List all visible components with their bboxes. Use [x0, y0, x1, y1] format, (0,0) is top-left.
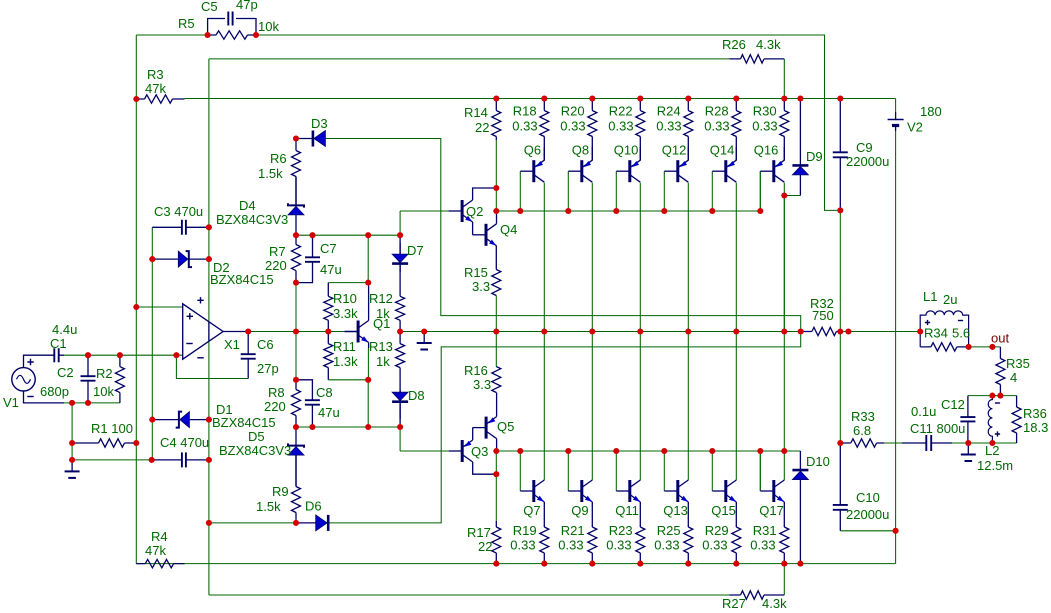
junction D2 left [149, 256, 155, 262]
svg-text:0.33: 0.33 [656, 119, 681, 134]
junction A C7 [309, 232, 315, 238]
svg-text:R34: R34 [924, 326, 948, 341]
svg-text:R21: R21 [561, 523, 585, 538]
wire Q16 emitter lead [783, 147, 785, 160]
svg-text:3.3: 3.3 [472, 279, 490, 294]
svg-text:Q16: Q16 [754, 143, 779, 158]
svg-text:0.33: 0.33 [512, 119, 537, 134]
junction midline x688 [685, 328, 691, 334]
svg-text:C5: C5 [201, 0, 218, 14]
junction top bus x520 [517, 208, 523, 214]
junction bottom bus2 x496 [493, 561, 499, 567]
svg-text:1.3k: 1.3k [333, 354, 358, 369]
capacitor C2 [81, 355, 96, 403]
junction L2 top [989, 393, 995, 399]
svg-text:2u: 2u [943, 292, 957, 307]
svg-text:R4: R4 [151, 529, 168, 544]
wire Q4 collector [496, 211, 498, 224]
transistor Q7 [520, 480, 544, 502]
wire base drop top Q12 [663, 171, 665, 211]
svg-text:V2: V2 [907, 120, 923, 135]
diode D6 [296, 515, 329, 531]
wire R15 to midline [495, 296, 497, 332]
junction midline x640 [637, 328, 643, 334]
svg-text:Q4: Q4 [500, 222, 517, 237]
svg-text:R13: R13 [369, 339, 393, 354]
svg-text:C9: C9 [856, 140, 873, 155]
svg-text:10k: 10k [93, 384, 114, 399]
junction L2 bottom [989, 440, 995, 446]
wire Q1 emitter link [367, 380, 369, 427]
svg-text:220: 220 [264, 399, 286, 414]
svg-text:R30: R30 [753, 104, 777, 119]
junction midline loop [798, 328, 804, 334]
junction midline gnd [421, 328, 427, 334]
svg-text:0.33: 0.33 [704, 119, 729, 134]
junction zobel gnd [965, 440, 971, 446]
junction bottom bus x712 [709, 448, 715, 454]
svg-text:Q14: Q14 [710, 143, 735, 158]
svg-text:D10: D10 [806, 454, 830, 469]
junction top bus x712 [709, 208, 715, 214]
svg-text:Q8: Q8 [572, 143, 589, 158]
wire second rail [209, 58, 730, 60]
junction bus x800 [797, 95, 803, 101]
svg-text:V1: V1 [3, 395, 19, 410]
resistor R28 [732, 99, 741, 161]
op-amp X1 [183, 297, 249, 359]
wire base rise bottom Q9 [567, 451, 569, 491]
wire supply column [208, 59, 210, 595]
junction R9 bottom [293, 520, 299, 526]
svg-text:R22: R22 [609, 104, 633, 119]
capacitor C3 [152, 220, 209, 235]
svg-text:Q3: Q3 [471, 444, 488, 459]
junction midline L1 [917, 328, 923, 334]
transistor Q14 [712, 160, 736, 182]
svg-text:R25: R25 [657, 523, 681, 538]
svg-text:47k: 47k [145, 81, 166, 96]
wire midline left [248, 331, 344, 333]
resistor R12 [396, 235, 405, 331]
resistor R15 [492, 246, 501, 296]
junction B Q1 collector [365, 280, 371, 286]
wire output column 1 [543, 183, 545, 481]
svg-text:R11: R11 [333, 339, 356, 354]
transistor Q17 [760, 480, 784, 502]
svg-text:BZX84C15: BZX84C15 [212, 415, 276, 430]
resistor R9 [292, 455, 301, 523]
svg-text:R27: R27 [722, 596, 746, 611]
svg-text:Q13: Q13 [663, 503, 688, 518]
svg-text:22: 22 [475, 120, 489, 135]
junction C4 left [149, 457, 155, 463]
junction R33 left [837, 440, 843, 446]
junction D1 right [206, 417, 212, 423]
wire Q1 collector link [367, 235, 369, 282]
svg-text:C1: C1 [50, 336, 67, 351]
svg-text:R26: R26 [722, 37, 746, 52]
junction A D7 [397, 232, 403, 238]
svg-text:47p: 47p [236, 0, 258, 12]
wire B line [328, 282, 368, 284]
junction bus x688 [685, 95, 691, 101]
wire ground column [71, 403, 73, 460]
wire Q17 base drop [759, 451, 761, 491]
wire top rail [136, 34, 207, 36]
wire base rise bottom Q11 [615, 451, 617, 491]
wire Q3 base link [399, 427, 401, 451]
svg-text:680p: 680p [40, 384, 69, 399]
junction bottom bus2 x688 [685, 561, 691, 567]
svg-text:Q5: Q5 [497, 419, 514, 434]
resistor R16 [492, 367, 501, 393]
wire noninverting input [136, 306, 182, 308]
node R5 right [253, 32, 259, 38]
svg-text:R10: R10 [333, 291, 357, 306]
wire R7R8 column mid [295, 283, 297, 380]
wire V2 column [895, 99, 897, 113]
wire C4 line left [72, 459, 152, 461]
transistor Q5 [473, 417, 497, 439]
junction C Q1 emitter [365, 377, 371, 383]
transistor Q8 [568, 160, 592, 182]
wire upper base bus [496, 171, 760, 211]
diode D8 [392, 390, 408, 419]
resistor R5 [208, 31, 256, 39]
resistor R35 [996, 347, 1005, 396]
junction R14 Q2 [493, 185, 499, 191]
svg-text:R35: R35 [1006, 356, 1030, 371]
svg-text:Q2: Q2 [466, 204, 483, 219]
wire midline main [400, 331, 806, 333]
junction bottom bus x760 [757, 448, 763, 454]
svg-text:BZX84C15: BZX84C15 [210, 272, 274, 287]
svg-text:C4 470u: C4 470u [160, 435, 209, 450]
zener D5 [288, 427, 304, 487]
diode D9 [792, 99, 808, 196]
junction bus x840 [837, 95, 843, 101]
svg-text:0.1u: 0.1u [911, 404, 936, 419]
wire D6 rail left [209, 522, 296, 524]
junction bottom bus2 x736 [733, 561, 739, 567]
svg-text:10k: 10k [258, 19, 279, 34]
junction bus x640 [637, 95, 643, 101]
resistor R30 [780, 99, 789, 161]
svg-text:D5: D5 [248, 429, 265, 444]
svg-text:R2: R2 [96, 366, 113, 381]
wire aux column [151, 227, 153, 460]
wire base rise bottom Q17 [759, 451, 761, 491]
junction midline x544 [541, 328, 547, 334]
svg-text:3.3: 3.3 [473, 377, 491, 392]
wire V2 down column [895, 131, 897, 564]
node R3 left [133, 96, 139, 102]
transistor Q15 [712, 480, 736, 502]
resistor R2 [115, 355, 124, 403]
wire Q3 collector to R17 [495, 474, 497, 521]
resistor R32 [801, 327, 841, 335]
junction gnd col [69, 457, 75, 463]
svg-text:22000u: 22000u [846, 507, 889, 522]
wire bottom rail R27 [209, 594, 730, 596]
wire Q1 base lead [345, 331, 359, 333]
junction bus x592 [589, 95, 595, 101]
resistor R7 [292, 235, 301, 282]
wire Q5 emitter up [496, 393, 498, 417]
junction R1 right [133, 440, 139, 446]
zener D2 [152, 251, 209, 267]
svg-text:R23: R23 [609, 523, 633, 538]
wire D6 rail to output loop [329, 332, 801, 523]
resistor R20 [588, 99, 597, 161]
capacitor C4 [152, 452, 209, 467]
wire R14 link [495, 188, 497, 211]
svg-text:C6: C6 [257, 337, 274, 352]
capacitor C7 [296, 235, 320, 282]
svg-text:D8: D8 [408, 388, 425, 403]
wire output column 6 [783, 183, 785, 481]
resistor R6 [292, 139, 301, 206]
svg-text:0.33: 0.33 [752, 119, 777, 134]
resistor R8 [292, 380, 301, 427]
svg-text:C12: C12 [941, 397, 965, 412]
transistor Q16 [760, 160, 784, 182]
junction A Q1c [365, 232, 371, 238]
ground at zobel [961, 443, 976, 461]
svg-text:Q17: Q17 [759, 503, 784, 518]
svg-text:5.6: 5.6 [952, 326, 970, 341]
wire Q10 emitter lead [639, 147, 641, 160]
junction bus x496 [493, 95, 499, 101]
svg-text:C10: C10 [856, 490, 880, 505]
transistor Q11 [616, 480, 640, 502]
junction C4 right [206, 457, 212, 463]
junction bus x544 [541, 95, 547, 101]
wire Q2 emitter to Q4 [472, 222, 474, 235]
svg-text:R7: R7 [269, 244, 286, 259]
junction C2 top [85, 352, 91, 358]
wire R26 to bus [783, 59, 785, 99]
transistor Q1 [345, 321, 369, 343]
svg-text:C7: C7 [320, 241, 337, 256]
capacitor C8 [296, 380, 320, 427]
resistor R4 [136, 559, 184, 567]
junction R35 bottom [997, 393, 1003, 399]
svg-text:R19: R19 [513, 523, 537, 538]
transistor Q2 [449, 200, 473, 222]
svg-text:0.33: 0.33 [558, 538, 583, 553]
svg-text:R15: R15 [464, 265, 488, 280]
junction D R8 [293, 424, 299, 430]
svg-text:Q1: Q1 [373, 316, 390, 331]
svg-text:D4: D4 [239, 198, 256, 213]
resistor R26 [729, 55, 784, 63]
wire C line [328, 379, 368, 381]
junction midline R7R8 [293, 328, 299, 334]
capacitor C6 [241, 332, 256, 379]
svg-text:X1: X1 [224, 337, 240, 352]
svg-text:750: 750 [812, 308, 834, 323]
wire Q2 collector [473, 188, 497, 200]
svg-text:R28: R28 [705, 104, 729, 119]
wire base drop top Q8 [567, 171, 569, 211]
svg-text:R17: R17 [467, 525, 491, 540]
svg-text:1.5k: 1.5k [258, 166, 283, 181]
junction midline R10R11 [325, 328, 331, 334]
wire Q8 emitter lead [591, 147, 593, 160]
svg-text:Q15: Q15 [711, 503, 736, 518]
svg-text:D9: D9 [806, 149, 823, 164]
wire C10 bottom [840, 530, 895, 532]
wire base drop top Q6 [519, 171, 521, 211]
svg-text:4.4u: 4.4u [52, 322, 77, 337]
resistor R24 [684, 99, 693, 161]
svg-text:R1 100: R1 100 [91, 421, 133, 436]
junction bottom bus x520 [517, 448, 523, 454]
junction V1 gnd [69, 400, 75, 406]
svg-text:C3 470u: C3 470u [154, 204, 203, 219]
junction D C8 [309, 424, 315, 430]
svg-text:L1: L1 [923, 289, 937, 304]
svg-text:180: 180 [920, 104, 942, 119]
resistor R29 [732, 502, 741, 564]
resistor R14 [492, 99, 501, 141]
capacitor C11 [902, 435, 952, 451]
junction C R8 top [293, 377, 299, 383]
capacitor C1 [54, 348, 64, 362]
wire lower base bus [496, 450, 784, 452]
svg-text:Q10: Q10 [614, 143, 639, 158]
wire feedback loop [176, 355, 248, 378]
resistor R36 [1012, 396, 1021, 443]
svg-text:R20: R20 [561, 104, 585, 119]
junction D1 left [149, 417, 155, 423]
svg-text:R5: R5 [178, 16, 195, 31]
junction bus x736 [733, 95, 739, 101]
junction midline x736 [733, 328, 739, 334]
wire Q14 emitter lead [735, 147, 737, 160]
junction top bus x568 [565, 208, 571, 214]
junction midline out wire [845, 328, 851, 334]
op-amp supply pin line [208, 322, 210, 341]
wire Q5 collector down [496, 439, 498, 451]
junction bottom bus x568 [565, 448, 571, 454]
resistor R31 [780, 502, 789, 564]
junction A R7 [293, 232, 299, 238]
wire Q1 emitter lead [368, 343, 370, 349]
wire base rise bottom Q15 [711, 451, 713, 491]
wire signal line [64, 354, 183, 356]
wire V1 bottom line [64, 402, 120, 404]
junction D2 right [206, 256, 212, 262]
svg-text:27p: 27p [257, 361, 279, 376]
svg-text:0.33: 0.33 [560, 119, 585, 134]
wire midline R32 right [840, 331, 920, 333]
svg-text:R31: R31 [753, 523, 777, 538]
svg-text:R33: R33 [851, 409, 875, 424]
junction top bus x760 [757, 208, 763, 214]
svg-text:D3: D3 [311, 116, 328, 131]
voltage source V1 [12, 355, 64, 403]
inductor L1 [920, 311, 968, 347]
resistor R10 [324, 283, 333, 332]
svg-text:3.3k: 3.3k [333, 306, 358, 321]
ground at input [65, 460, 80, 478]
wire R14 lower lead [495, 140, 497, 188]
junction D3 R6 [293, 135, 299, 141]
junction bottom bus2 x800 [797, 561, 803, 567]
svg-text:C11 800u: C11 800u [910, 421, 965, 436]
junction D6 left [206, 520, 212, 526]
junction midline R32 right [837, 328, 843, 334]
junction R2 top [117, 352, 123, 358]
transistor Q6 [520, 160, 544, 182]
svg-text:R8: R8 [268, 385, 285, 400]
svg-text:R3: R3 [147, 67, 164, 82]
wire midline to R16 [495, 332, 497, 367]
wire Q12 emitter lead [687, 147, 689, 160]
svg-text:Q11: Q11 [615, 503, 639, 518]
wire Q5 collector link [495, 451, 497, 474]
svg-text:4.3k: 4.3k [756, 37, 781, 52]
resistor R34 [920, 343, 968, 351]
resistor R27 [729, 591, 784, 599]
wire D9 bottom link [784, 195, 800, 197]
svg-text:Q12: Q12 [662, 143, 687, 158]
inductor L2 [988, 396, 1000, 443]
svg-text:47k: 47k [145, 543, 166, 558]
node R5 left [205, 32, 211, 38]
wire C9 column lower [839, 210, 841, 331]
wire base drop top Q16 [759, 171, 761, 211]
junction Q3 collector [493, 471, 499, 477]
wire zobel bottom [952, 442, 1017, 444]
resistor R18 [540, 99, 549, 161]
capacitor C12 [960, 396, 975, 443]
transistor Q10 [616, 160, 640, 182]
svg-text:22000u: 22000u [846, 154, 889, 169]
wire D10 top link [784, 450, 800, 452]
wire D3 rail to output loop [326, 139, 801, 332]
svg-text:R24: R24 [657, 104, 681, 119]
wire left rail vertical [135, 35, 137, 564]
junction inv input [173, 352, 179, 358]
svg-text:47u: 47u [318, 405, 340, 420]
junction midline x784 [781, 328, 787, 334]
junction C2 bottom [85, 400, 91, 406]
svg-text:0.33: 0.33 [510, 538, 535, 553]
junction R34 right [966, 344, 972, 350]
svg-text:12.5m: 12.5m [977, 458, 1013, 473]
junction bottom bus2 x640 [637, 561, 643, 567]
junction D Q1e link [365, 424, 371, 430]
svg-text:Q6: Q6 [524, 143, 541, 158]
wire D line [296, 426, 400, 428]
resistor R11 [324, 332, 333, 380]
wire Q2 base link [399, 211, 401, 235]
wire A line [296, 234, 400, 236]
svg-text:22: 22 [478, 539, 492, 554]
svg-text:D6: D6 [305, 499, 322, 514]
resistor R1 [72, 439, 136, 447]
capacitor C5 [208, 12, 256, 36]
svg-text:C2: C2 [57, 365, 74, 380]
wire Q3 collector [473, 462, 497, 474]
junction D9 Q16 [781, 192, 787, 198]
wire C9C10 column mid [839, 332, 841, 444]
resistor R17 [492, 521, 501, 564]
